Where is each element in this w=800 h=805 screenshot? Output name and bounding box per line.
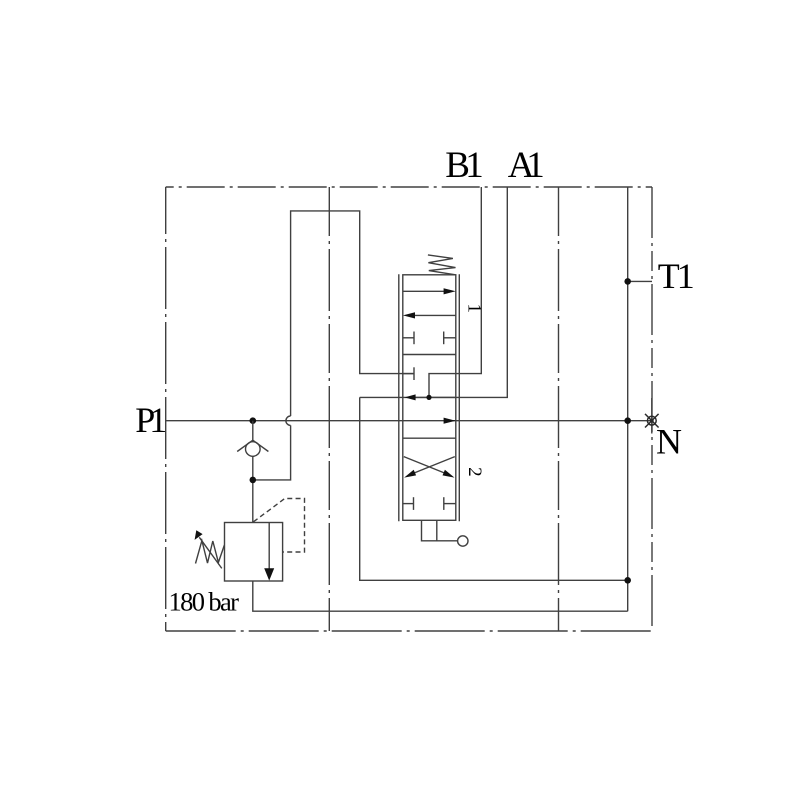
- directional valve V1 divider 2: [403, 437, 456, 439]
- relief valve RV1 adjustment arrow: [199, 537, 222, 568]
- valve V1 crossed arrow a (cell 3): [404, 457, 447, 474]
- svg-text:P1: P1: [135, 400, 167, 440]
- svg-text:N: N: [656, 422, 682, 462]
- node check valve outlet junction: [250, 477, 257, 484]
- svg-text:180 bar: 180 bar: [169, 586, 240, 616]
- relief valve RV1 pilot line (dashed): [254, 499, 305, 553]
- section line S2 (dash-dot): [558, 187, 560, 631]
- valve V1 blocked port left (cell 3): [403, 503, 414, 505]
- valve V1 actuator roller circle: [458, 536, 468, 546]
- wire P1 main line: [166, 420, 652, 422]
- wire relief valve outlet to return: [253, 581, 628, 611]
- node P1/T1 riser junction: [624, 417, 631, 424]
- enclosure border top: [166, 186, 652, 188]
- valve V1 arrow right P1 passage (cell 2): [444, 418, 456, 424]
- relief valve RV1 spring: [196, 541, 225, 564]
- svg-text:1: 1: [463, 304, 484, 314]
- valve V1 arrow left (cell 1): [414, 314, 456, 316]
- enclosure border bottom: [166, 630, 652, 632]
- svg-text:T1: T1: [658, 256, 695, 296]
- node valve internal junction: [426, 395, 431, 400]
- wire B1 riser: [429, 187, 481, 397]
- line jump (crossover hump) on riser at P1: [286, 416, 291, 425]
- wire check valve inlet: [252, 421, 254, 441]
- directional valve V1 divider 1: [403, 354, 456, 356]
- valve V1 arrow right (cell 1): [403, 290, 445, 292]
- check valve CV1 seat: [237, 440, 268, 451]
- plugged port symbol N (circle with cross ticks): [645, 414, 659, 428]
- relief valve RV1 body: [225, 523, 283, 582]
- node T1 junction: [624, 278, 631, 285]
- wire riser below hump to check valve outlet: [253, 425, 291, 480]
- valve V1 blocked port left (cell 2): [403, 373, 414, 375]
- valve V1 crossed arrow b (cell 3): [412, 457, 455, 474]
- check valve CV1 poppet ball: [246, 442, 261, 457]
- wire T1 riser: [627, 187, 629, 611]
- wire border solid segment at plug N: [651, 398, 653, 434]
- valve V1 actuator box (bottom): [422, 520, 458, 541]
- node P1/check valve junction: [250, 417, 257, 424]
- svg-text:B1: B1: [445, 145, 484, 186]
- svg-text:2: 2: [464, 467, 485, 477]
- enclosure border right: [651, 187, 653, 631]
- svg-text:A1: A1: [508, 145, 545, 186]
- wire T1 port stub: [628, 280, 652, 282]
- directional valve V1 left rail: [398, 274, 400, 521]
- valve V1 blocked port right (cell 3): [444, 503, 456, 505]
- wire left return drop (valve left port down to return): [360, 397, 628, 580]
- wire left loop (valve left port to upper gallery): [291, 211, 415, 416]
- valve V1 spring: [428, 255, 456, 275]
- wire check valve outlet: [252, 456, 254, 522]
- valve V1 blocked port left (cell 1): [403, 337, 414, 339]
- valve V1 arrow left to tank (cell 2): [414, 396, 456, 398]
- directional valve V1 body: [403, 275, 456, 521]
- valve V1 blocked port right (cell 1): [444, 337, 456, 339]
- section line S1 (dash-dot): [328, 187, 330, 631]
- relief valve RV1 internal flow arrow: [268, 523, 270, 570]
- node return/T1 riser junction: [624, 577, 631, 584]
- enclosure border left: [165, 187, 167, 631]
- directional valve V1 right rail: [458, 274, 460, 521]
- wire A1 riser: [360, 187, 508, 397]
